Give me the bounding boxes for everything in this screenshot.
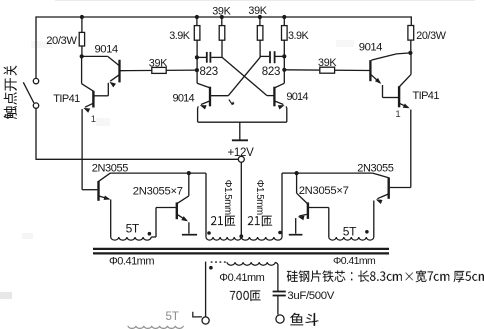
wire: ×7 right emitter to ground	[296, 214, 308, 234]
wire: ×7 left collector to node A	[177, 173, 189, 204]
node output terminal (left)	[202, 317, 209, 324]
junction 3.9K right / cap	[282, 54, 286, 58]
svg-text:2N3055×7: 2N3055×7	[299, 185, 349, 197]
wire: astable left emitter	[198, 101, 210, 122]
label 700匝	[230, 290, 261, 301]
wire: TIP41 left emitter down to 2N3055 base	[82, 103, 93, 190]
svg-text:5T: 5T	[166, 311, 179, 323]
wire: node B to right primary	[282, 173, 297, 237]
polarity dot primary right	[278, 231, 282, 235]
wire: 9014 left base to 39K	[120, 69, 197, 72]
svg-text:Φ0.41mm: Φ0.41mm	[333, 255, 376, 267]
wire: ×7 left emitter to ground	[177, 214, 189, 234]
transistor Q 2N3055 (right)	[373, 173, 411, 199]
svg-text:3.9K: 3.9K	[169, 30, 191, 42]
wire: 9014 right base to 39K	[284, 69, 370, 72]
svg-text:Φ1.5mm: Φ1.5mm	[222, 180, 233, 215]
transistor Q 2N3055×7 (right)	[307, 202, 309, 219]
wire: 5T left to ×7 base	[151, 208, 176, 238]
winding 5T bottom (cut off)	[128, 326, 183, 329]
wire: 9014 right emitter to TIP41 base	[371, 75, 398, 98]
wire: top supply rail	[36, 16, 411, 18]
wire: 2N3055 left emitter to 5T winding	[99, 196, 111, 238]
junction 3.9K left / cap	[195, 55, 199, 59]
label 21匝 (right)	[248, 216, 272, 227]
svg-text:39K: 39K	[212, 6, 231, 18]
winding 21匝 primary (right half)	[241, 237, 282, 240]
wire: transformer center tap from +12V	[240, 162, 242, 237]
junction top rail / 3.9K left	[195, 15, 199, 19]
switch 触点开关 contact switch	[23, 78, 38, 108]
svg-text:2N3055×7: 2N3055×7	[133, 185, 183, 197]
node output terminal (right)	[276, 315, 284, 323]
label 触点开关 (vertical)	[4, 66, 17, 120]
wire: cross-coupling mid-right to left base	[211, 57, 260, 95]
winding 5T feedback (left)	[111, 237, 152, 240]
svg-text:9014: 9014	[173, 92, 195, 104]
resistor 39K (left base)	[152, 67, 166, 73]
transistor Q 9014 astable (right)	[274, 83, 284, 106]
junction 20/3W bottom node (right)	[408, 51, 412, 55]
wire: ×7 right collector to node B	[297, 173, 308, 204]
wire: 2N3055 right collector to node B	[297, 172, 373, 174]
wire: 5T right to ×7 base	[309, 208, 329, 238]
wire: bottom 5T winding lead	[193, 312, 202, 317]
label 鱼斗	[290, 313, 318, 326]
resistor 39K (mid-left)	[219, 17, 225, 58]
capacitor 823 (left)	[197, 52, 222, 63]
transistor Q TIP41 (left)	[82, 56, 94, 107]
winding 700匝 secondary (dotted start)	[211, 261, 227, 263]
polarity dot primary left	[207, 231, 211, 235]
junction center tap	[239, 234, 243, 238]
ground (astable emitters)	[232, 122, 248, 140]
transistor Q 2N3055×7 (left)	[176, 202, 178, 219]
transformer core	[93, 249, 389, 254]
winding 21匝 primary (left half)	[206, 237, 241, 240]
svg-text:39K: 39K	[318, 57, 337, 69]
svg-text:3uF/500V: 3uF/500V	[287, 290, 334, 302]
transistor Q TIP41 (right)	[399, 54, 411, 108]
svg-text:9014: 9014	[286, 91, 308, 103]
svg-text:39K: 39K	[248, 5, 267, 17]
wire: node A to left primary	[189, 173, 206, 237]
resistor 39K (right base)	[320, 67, 335, 73]
svg-text:3.9K: 3.9K	[288, 30, 310, 42]
ground (right ×7 emitter)	[289, 234, 303, 236]
junction 20/3W bottom node (left)	[80, 54, 84, 58]
svg-text:823: 823	[200, 66, 218, 78]
junction top rail / 3.9K right	[282, 15, 286, 19]
polarity dot secondary	[209, 266, 213, 270]
wire: 2N3055 right emitter to 5T winding	[374, 194, 389, 237]
junction 3.9K left / 39K base wire	[195, 68, 199, 72]
resistor 20/3W (left)	[79, 17, 84, 56]
svg-text:TIP41: TIP41	[53, 93, 80, 105]
label 硅钢片铁芯 core spec	[287, 270, 484, 283]
svg-text:5T: 5T	[126, 222, 140, 236]
resistor 20/3W (right)	[408, 16, 414, 53]
resistor 3.9K (right)	[282, 17, 288, 83]
wire: TIP41 right emitter rail down	[399, 103, 411, 187]
svg-text:20/3W: 20/3W	[416, 30, 446, 42]
resistor 39K (mid-right)	[257, 17, 263, 58]
small v mark between astable emitters	[229, 100, 234, 105]
junction top rail / 20/3W left	[80, 15, 84, 19]
svg-text:823: 823	[262, 66, 280, 78]
wire: astable emitter bus	[198, 121, 287, 123]
wire: left battery rail lower	[35, 108, 37, 160]
winding 5T feedback (right)	[329, 237, 374, 240]
polarity dot 5T right	[365, 230, 369, 234]
svg-text:39K: 39K	[149, 58, 168, 70]
transistor Q 9014 driver (left)	[82, 56, 120, 82]
junction top rail / 39K mid-right	[258, 15, 262, 19]
svg-text:9014: 9014	[95, 44, 118, 56]
wire: 2N3055 left collector to node A	[111, 172, 189, 174]
svg-text:+12V: +12V	[228, 147, 255, 159]
node A: left collector junction	[187, 171, 191, 175]
svg-text:TIP41: TIP41	[413, 90, 440, 102]
svg-text:20/3W: 20/3W	[46, 35, 77, 47]
ground (left ×7 emitter)	[182, 234, 197, 236]
node +12V terminal	[238, 156, 244, 162]
capacitor 3uF/500V	[273, 292, 286, 315]
winding 700匝 secondary	[227, 262, 275, 265]
svg-text:Φ0.41mm: Φ0.41mm	[219, 272, 264, 284]
wire: secondary right lead	[275, 262, 278, 291]
transistor Q 9014 driver (right)	[370, 53, 410, 81]
transistor Q 2N3055 (left)	[82, 173, 110, 201]
svg-text:Φ0.41mm: Φ0.41mm	[109, 256, 154, 268]
wire: left battery rail upper	[35, 16, 37, 78]
node B: right collector junction	[295, 171, 299, 175]
wire: astable right emitter	[274, 101, 286, 122]
wire: 9014 left emitter to TIP41 base	[94, 75, 119, 96]
polarity dot 5T left	[148, 232, 152, 236]
svg-text:1: 1	[91, 114, 96, 125]
svg-text:1: 1	[395, 109, 400, 120]
resistor 3.9K (left)	[194, 17, 200, 83]
junction 3.9K right / 39K base wire	[282, 68, 286, 72]
wire: secondary left lead	[205, 262, 207, 317]
svg-text:5T: 5T	[343, 224, 357, 238]
svg-text:9014: 9014	[359, 42, 382, 54]
transistor Q 9014 astable (left)	[197, 83, 210, 106]
wire: cross-coupling mid-left to right base	[222, 57, 274, 95]
label 21匝 (left)	[211, 216, 236, 227]
svg-text:Φ1.5mm: Φ1.5mm	[254, 180, 265, 215]
capacitor 823 (right)	[260, 51, 284, 63]
wire: +12V feed to terminal	[36, 158, 238, 160]
junction top rail / 39K mid-left	[220, 15, 224, 19]
